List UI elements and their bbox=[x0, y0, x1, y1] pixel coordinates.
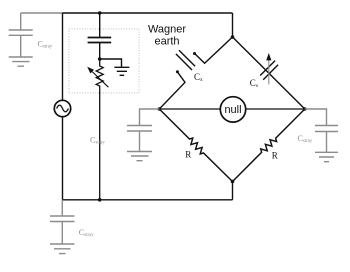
ground (top-left Cstray) bbox=[9, 57, 33, 66]
node right vertex bbox=[303, 107, 307, 111]
ground (bottom Cstray) bbox=[50, 244, 75, 254]
ground (Wagner earth) bbox=[114, 67, 129, 75]
AC voltage source bbox=[54, 100, 70, 116]
svg-text:Wagner: Wagner bbox=[148, 23, 186, 35]
capacitor Cstray top-left bbox=[9, 13, 33, 57]
junction dot (top wire / wagner) bbox=[98, 11, 102, 15]
wire cap to junction bbox=[99, 43, 101, 60]
resistor R (bottom-left arm) bbox=[159, 109, 232, 182]
capacitor Cx arm (top-left) bbox=[159, 37, 232, 109]
capacitor (Wagner earth) bbox=[88, 38, 112, 43]
rheostat arrow bbox=[92, 72, 108, 88]
wire ground stub bbox=[100, 59, 122, 67]
svg-text:null: null bbox=[224, 104, 241, 116]
ground (right Cstray) bbox=[315, 152, 338, 161]
resistor R (bottom-right arm) bbox=[233, 109, 305, 182]
wire null left bbox=[159, 108, 220, 110]
wire diamond bottom lead bbox=[232, 182, 234, 200]
wire bottom bbox=[63, 199, 233, 201]
junction dot (bottom wire / wagner) bbox=[98, 198, 102, 202]
node left vertex bbox=[158, 107, 162, 111]
wire gray top-left lead bbox=[21, 12, 63, 14]
node bottom vertex bbox=[231, 180, 235, 184]
Wagner earth dotted box bbox=[69, 29, 139, 93]
capacitor Cstray right bbox=[305, 109, 338, 152]
junction dot (wagner ground tap) bbox=[98, 57, 102, 61]
wire left (source branch) bbox=[62, 13, 64, 200]
capacitor Cs arm (top-right, variable) bbox=[233, 37, 305, 109]
svg-text:R: R bbox=[185, 150, 191, 160]
rheostat (Wagner variable resistor) bbox=[96, 59, 103, 200]
svg-text:R: R bbox=[272, 150, 278, 160]
svg-text:earth: earth bbox=[154, 35, 179, 47]
Cs arrow bbox=[268, 60, 270, 85]
capacitor Cstray mid-left bbox=[127, 109, 159, 152]
wire diamond top lead bbox=[232, 13, 234, 37]
wire wagner branch (top) bbox=[99, 13, 101, 38]
ground (mid-left Cstray) bbox=[127, 152, 152, 161]
node top vertex bbox=[231, 35, 235, 39]
null detector bbox=[220, 97, 245, 122]
wire null right bbox=[246, 108, 305, 110]
capacitor Cstray bottom bbox=[50, 200, 75, 244]
wire top bbox=[63, 12, 233, 14]
